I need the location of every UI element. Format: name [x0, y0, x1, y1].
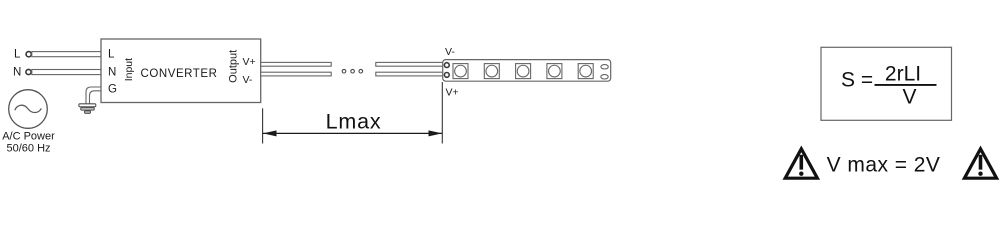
- wire L (source to converter): [32, 52, 101, 57]
- wire V- out of converter: [261, 72, 332, 76]
- ground wire elbow from G: [86, 87, 101, 104]
- terminal ring N: [26, 69, 31, 74]
- svg-text:N: N: [108, 67, 116, 79]
- Lmax dimension right extension line: [441, 82, 443, 144]
- converter U1: [101, 39, 261, 103]
- A/C power source: [9, 90, 48, 129]
- svg-text:Output: Output: [228, 50, 240, 83]
- terminal ring L: [26, 52, 31, 57]
- svg-text:CONVERTER: CONVERTER: [141, 68, 218, 80]
- svg-text:V+: V+: [243, 56, 256, 68]
- svg-text:L: L: [14, 49, 21, 61]
- LED D2: [484, 64, 499, 79]
- LED strip body: [443, 60, 611, 82]
- formula box: [821, 47, 952, 120]
- warning triangle right: [964, 149, 996, 178]
- wire V+ to strip: [376, 62, 446, 66]
- svg-text:S =: S =: [841, 69, 873, 92]
- LED D5: [578, 64, 593, 79]
- LED D4: [547, 64, 562, 79]
- svg-text:V-: V-: [243, 74, 253, 86]
- strip end pad bottom: [601, 75, 608, 79]
- strip pad V-: [444, 63, 449, 68]
- Lmax arrow: [263, 132, 442, 134]
- svg-text:G: G: [108, 84, 117, 96]
- wire break dots: [342, 69, 346, 73]
- svg-text:50/60 Hz: 50/60 Hz: [6, 143, 50, 155]
- svg-text:Input: Input: [123, 58, 135, 81]
- strip pad V+: [444, 73, 449, 78]
- warning triangle left: [785, 149, 817, 178]
- wire V- to strip: [376, 72, 446, 76]
- svg-text:V+: V+: [446, 87, 459, 99]
- wire N (source to converter): [32, 70, 101, 75]
- svg-text:V-: V-: [445, 46, 455, 58]
- svg-text:Lmax: Lmax: [326, 110, 382, 134]
- svg-text:2rLI: 2rLI: [885, 63, 921, 86]
- LED D1: [453, 64, 468, 79]
- wire V+ out of converter: [261, 62, 332, 66]
- ground symbol: [79, 104, 96, 107]
- svg-text:V: V: [902, 86, 916, 109]
- LED D3: [516, 64, 531, 79]
- svg-text:A/C Power: A/C Power: [2, 131, 55, 143]
- Lmax dimension left extension line: [262, 108, 264, 143]
- svg-text:N: N: [13, 67, 21, 79]
- svg-text:L: L: [108, 49, 115, 61]
- svg-text:V max = 2V: V max = 2V: [827, 154, 941, 177]
- strip end pad top: [601, 65, 608, 69]
